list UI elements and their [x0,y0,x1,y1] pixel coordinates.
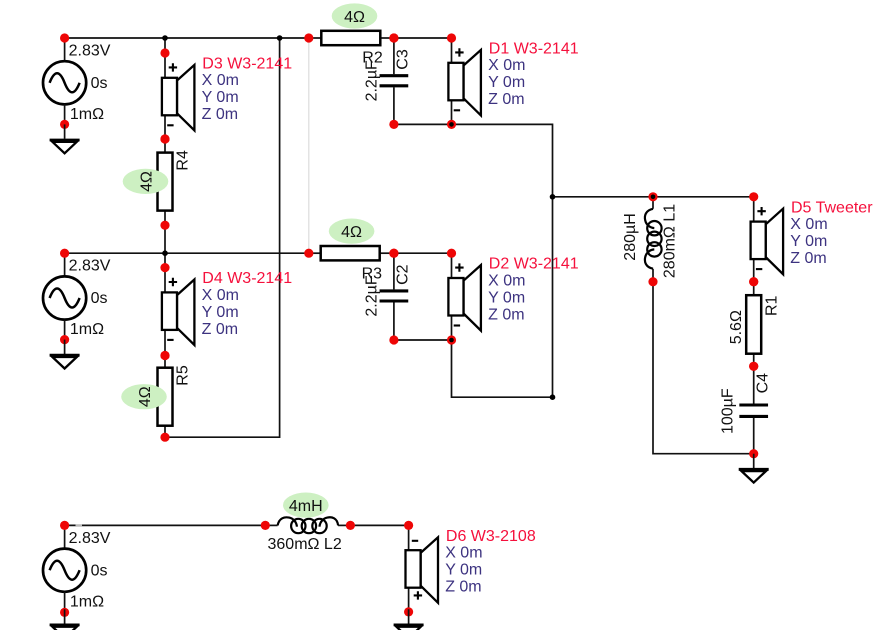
svg-text:D4 W3-2141: D4 W3-2141 [202,270,292,287]
svg-text:X 0m: X 0m [202,72,239,89]
svg-text:4Ω: 4Ω [341,224,362,241]
resistor R3 [304,246,398,260]
node junction mid line at row2 return [550,394,556,400]
svg-text:2.83V: 2.83V [69,43,111,60]
svg-text:Y 0m: Y 0m [445,562,482,579]
ground below V3 (clipped) [50,609,80,630]
svg-text:X 0m: X 0m [488,272,525,289]
ground below V1 [50,124,80,153]
svg-text:Z 0m: Z 0m [790,250,826,267]
svg-text:1mΩ: 1mΩ [70,106,104,123]
svg-text:Y 0m: Y 0m [488,74,525,91]
svg-text:4Ω: 4Ω [137,386,154,407]
svg-text:2.83V: 2.83V [69,258,111,275]
speaker D2 [447,249,481,345]
speaker D6 (inverted polarity) [404,521,438,617]
speaker D1 [447,33,481,129]
highlight 4ohm value of R3 [329,219,375,244]
svg-text:X 0m: X 0m [488,57,525,74]
svg-text:2.2µF: 2.2µF [364,60,381,101]
svg-text:X 0m: X 0m [790,216,827,233]
svg-text:Z 0m: Z 0m [488,91,524,108]
wire R2 right to D1 [394,37,452,39]
inductor L2 [261,517,355,533]
svg-text:R1: R1 [763,295,780,316]
highlight 4ohm value of R5 [121,384,167,409]
svg-text:100µF: 100µF [720,388,737,434]
node junction top net at return line [277,35,283,41]
svg-text:4mH: 4mH [289,498,323,515]
wire L2 to D6 [350,524,408,526]
svg-text:Z 0m: Z 0m [202,321,238,338]
svg-text:280µH: 280µH [622,213,639,260]
svg-text:D2 W3-2141: D2 W3-2141 [489,256,579,273]
highlight 4ohm value of R2 [332,3,378,28]
svg-text:280mΩ L1: 280mΩ L1 [662,204,679,278]
voltage source V2 2.83V [43,249,111,345]
resistor R1 [746,277,761,371]
resistor R4 [158,134,173,229]
wire R3 right to D2 [394,252,452,254]
node junction D1 bottom [449,122,454,127]
svg-text:Z 0m: Z 0m [445,579,481,596]
svg-text:2.2µF: 2.2µF [364,275,381,316]
svg-text:Y 0m: Y 0m [488,289,525,306]
svg-text:4Ω: 4Ω [344,9,365,26]
voltage source V1 2.83V [43,33,111,129]
svg-text:Z 0m: Z 0m [488,306,524,323]
svg-text:Y 0m: Y 0m [202,89,239,106]
wire L1 bottom to C4 bottom node [653,282,754,454]
wire return line right of D3/D4 column [165,38,280,437]
resistor R2 [304,31,398,45]
wire top net from V1 to R2 [65,37,309,39]
svg-text:C4: C4 [754,373,771,394]
ground below D6 (clipped) [394,609,424,630]
label D1 W3-2141 X/Y/Z [488,41,579,109]
inductor L1 [645,192,662,286]
wire bottom of row2 C2 to D2 [394,339,452,341]
svg-text:R5: R5 [175,365,192,386]
svg-text:C2: C2 [395,264,412,285]
node junction L1 top [651,195,656,200]
label D3 W3-2141 X/Y/Z [202,56,293,124]
capacitor C2 [380,249,409,345]
node junction top net at D3 branch [162,35,168,41]
svg-text:D5 Tweeter: D5 Tweeter [791,199,873,216]
wire bottom of row1 C3/D1 to mid line [394,124,553,397]
capacitor C3 [380,33,409,129]
svg-text:0s: 0s [91,290,108,307]
wire V3 to L2 [65,524,266,526]
ground below V2 [50,340,80,369]
svg-text:D1 W3-2141: D1 W3-2141 [489,41,579,58]
svg-text:1mΩ: 1mΩ [70,593,104,610]
svg-text:D3 W3-2141: D3 W3-2141 [202,56,292,73]
svg-text:Y 0m: Y 0m [202,304,239,321]
speaker D3 [160,48,194,143]
speaker D4 [160,263,194,360]
ground below C4 node [739,454,769,483]
svg-text:0s: 0s [91,75,108,92]
grey tick on V3 wire [76,524,83,526]
svg-text:D6 W3-2108: D6 W3-2108 [446,528,536,545]
speaker D5 tweeter [749,192,783,286]
label D6 W3-2108 X/Y/Z [445,528,536,596]
label D5 Tweeter X/Y/Z [790,199,873,267]
svg-text:0s: 0s [91,562,108,579]
svg-text:1mΩ: 1mΩ [70,321,104,338]
svg-text:2.83V: 2.83V [69,530,111,547]
highlight 4ohm value of R4 [123,169,169,194]
svg-text:Z 0m: Z 0m [202,106,238,123]
node junction row2 net at D4 branch [162,250,168,256]
svg-text:4Ω: 4Ω [138,171,155,192]
label D4 W3-2141 X/Y/Z [202,270,293,338]
wire D2 bottom down and right to mid line [452,340,553,397]
highlight 4mH value of L2 [283,493,329,518]
svg-text:X 0m: X 0m [445,545,482,562]
grey helper line R2-R3 left junction [308,38,310,253]
svg-text:Y 0m: Y 0m [790,233,827,250]
wire mid node to L1 and D5 [553,196,754,198]
svg-text:5.6Ω: 5.6Ω [728,310,745,344]
resistor R5 [158,351,173,442]
svg-text:R4: R4 [175,150,192,171]
node junction D2 bottom [449,338,454,343]
voltage source V3 2.83V [43,521,111,617]
svg-text:C3: C3 [395,49,412,70]
label D2 W3-2141 X/Y/Z [488,256,579,324]
capacitor C4 [739,362,768,459]
wire R4 bottom to row2 net [164,225,166,267]
wire V2 row to R3 [65,252,309,254]
svg-text:X 0m: X 0m [202,287,239,304]
wire D3 branch from top net [164,38,166,53]
node junction mid line to L1/D5 [550,194,556,200]
svg-text:360mΩ L2: 360mΩ L2 [268,536,342,553]
